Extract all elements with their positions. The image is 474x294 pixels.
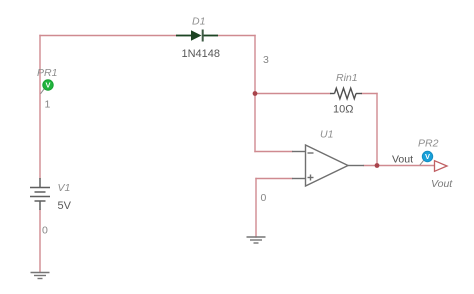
svg-text:3: 3	[263, 54, 269, 66]
svg-text:1N4148: 1N4148	[182, 48, 221, 60]
svg-text:V: V	[45, 81, 50, 90]
svg-text:0: 0	[42, 225, 48, 237]
svg-text:Rin1: Rin1	[336, 72, 358, 84]
svg-text:PR2: PR2	[418, 138, 439, 150]
svg-text:PR1: PR1	[37, 67, 57, 79]
svg-text:0: 0	[261, 192, 267, 204]
svg-text:5V: 5V	[58, 200, 72, 212]
svg-text:10Ω: 10Ω	[333, 104, 353, 116]
svg-text:U1: U1	[320, 129, 333, 141]
svg-text:V: V	[425, 152, 430, 161]
svg-text:Vout: Vout	[392, 154, 413, 166]
svg-text:V1: V1	[58, 182, 71, 194]
svg-text:D1: D1	[192, 16, 205, 28]
svg-text:Vout: Vout	[431, 178, 453, 190]
svg-text:1: 1	[45, 99, 51, 111]
